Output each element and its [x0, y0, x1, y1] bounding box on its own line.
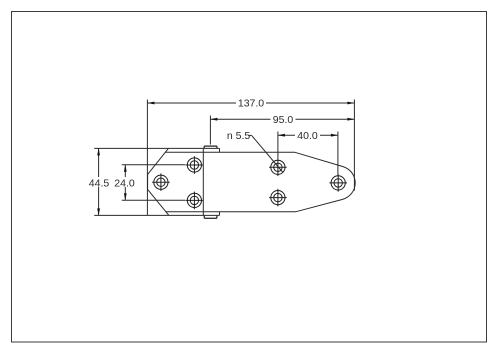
svg-text:n 5.5: n 5.5 — [227, 130, 251, 142]
svg-text:40.0: 40.0 — [297, 130, 318, 142]
svg-text:24.0: 24.0 — [114, 177, 135, 189]
svg-text:137.0: 137.0 — [238, 98, 264, 110]
svg-text:44.5: 44.5 — [89, 177, 110, 189]
svg-text:95.0: 95.0 — [273, 114, 294, 126]
